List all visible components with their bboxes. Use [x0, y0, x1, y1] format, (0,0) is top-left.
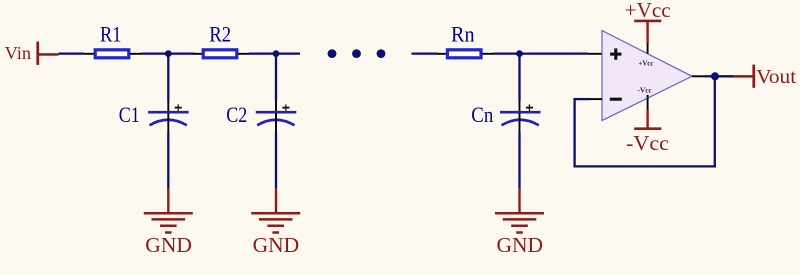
port Vout terminal bar [752, 65, 755, 88]
svg-text:C2: C2 [226, 102, 247, 127]
port Vin terminal bar [36, 42, 39, 65]
capacitor C1 column: wire node A down [167, 54, 169, 101]
label R2 [209, 21, 231, 46]
svg-text:R1: R1 [100, 21, 122, 46]
op-amp plus input symbol [610, 48, 621, 59]
ground 1 [144, 188, 193, 233]
pin Rn.2 [482, 53, 493, 55]
op-amp internal -Vcc pin label [638, 86, 653, 95]
wire feedback left vertical [573, 98, 575, 166]
ground 3 [495, 188, 544, 233]
svg-text:R2: R2 [209, 21, 231, 46]
svg-text:Vout: Vout [756, 66, 796, 88]
resistor R1 [95, 50, 129, 58]
pin R2.1 [193, 53, 204, 55]
svg-text:C1: C1 [119, 102, 140, 127]
C2 plus polarity mark [282, 104, 289, 110]
wire break to Rn [412, 52, 438, 54]
capacitor C2 column: wire node B down [275, 54, 277, 101]
port Vin stub wire [37, 53, 59, 56]
pin R2.2 [238, 53, 249, 55]
label Rn [451, 21, 475, 46]
node A junction [165, 50, 172, 57]
pin U1 output [692, 75, 705, 77]
label GND 1 [145, 233, 192, 257]
wire Vin to R1 [59, 52, 85, 54]
ellipsis dots [328, 49, 386, 58]
port Vout label [756, 66, 796, 88]
wire node C to op-amp [520, 52, 589, 54]
svg-text:GND: GND [145, 233, 192, 257]
svg-text:Cn: Cn [471, 102, 493, 127]
node D junction [711, 72, 719, 80]
label C1 [119, 102, 140, 127]
pin C2.1 [275, 101, 277, 112]
power -Vcc stem [646, 110, 648, 129]
wire minus input feedback left [575, 98, 590, 100]
op-amp internal +Vcc pin label [638, 58, 654, 67]
node B junction [273, 50, 280, 57]
svg-text:+Vcc: +Vcc [625, 0, 671, 22]
wire Cn to ground 3 [518, 133, 520, 189]
wire Rn to node C [493, 52, 520, 54]
ground 2 [251, 188, 300, 233]
pin C1.1 [167, 101, 169, 112]
power -Vcc label [626, 131, 669, 155]
capacitor C1 [148, 112, 189, 125]
label C2 [226, 102, 247, 127]
svg-text:Rn: Rn [451, 21, 475, 46]
power +Vcc stem [646, 21, 648, 43]
op-amp minus input symbol [610, 98, 622, 101]
resistor R2 [203, 50, 237, 58]
pin U1 V+ [647, 43, 649, 54]
svg-text:GND: GND [497, 233, 544, 257]
wire C2 to ground 2 [275, 133, 277, 189]
capacitor C2 [256, 112, 296, 125]
wire feedback bottom horizontal [574, 165, 716, 167]
C1 plus polarity mark [175, 104, 182, 110]
capacitor Cn [500, 112, 541, 125]
svg-text:-Vcc: -Vcc [626, 131, 669, 155]
wire node B to break [276, 52, 300, 54]
node C junction [516, 50, 523, 57]
label R1 [100, 21, 122, 46]
wire node D to Vout [715, 75, 733, 77]
pin C1.2 [167, 113, 169, 133]
power +Vcc label [625, 0, 671, 22]
capacitor Cn column: wire node C down [518, 54, 520, 101]
wire R2 to node B [249, 52, 276, 54]
port Vin label [5, 43, 32, 63]
wire output to node D [705, 75, 715, 77]
pin R1.2 [130, 53, 141, 55]
wire C1 to ground 1 [167, 133, 169, 189]
svg-text:GND: GND [253, 233, 300, 257]
svg-text:+Vcc: +Vcc [638, 58, 654, 67]
pin Cn.2 [519, 113, 521, 133]
resistor Rn [447, 50, 481, 58]
pin Cn.1 [519, 101, 521, 112]
label Cn [471, 102, 493, 127]
pin C2.2 [275, 113, 277, 133]
svg-text:-Vcc: -Vcc [638, 86, 653, 95]
wire node A to R2 [168, 52, 194, 54]
label GND 3 [497, 233, 544, 257]
pin U1 plus input [588, 53, 602, 55]
wire feedback right vertical [714, 76, 716, 167]
label GND 2 [253, 233, 300, 257]
port Vout stub wire [733, 75, 753, 78]
pin R1.1 [84, 53, 95, 55]
pin Rn.1 [438, 53, 448, 55]
Cn plus polarity mark [526, 104, 533, 110]
svg-text:Vin: Vin [5, 43, 32, 63]
wire R1 to node A [141, 52, 168, 54]
pin U1 V- [647, 95, 649, 110]
power -Vcc bar [634, 127, 661, 130]
power +Vcc bar [634, 20, 661, 23]
op-amp U1 body [602, 31, 692, 121]
pin U1 minus input [590, 98, 602, 100]
